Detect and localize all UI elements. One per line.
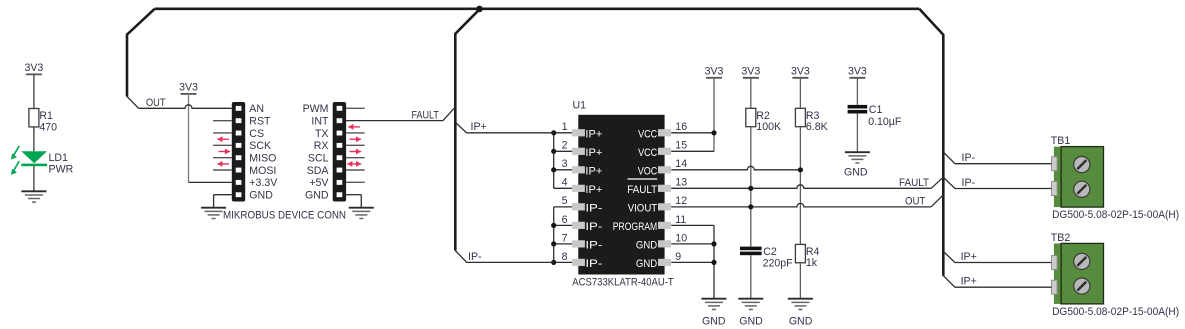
svg-text:GND: GND bbox=[305, 190, 329, 202]
svg-text:IP-: IP- bbox=[585, 239, 602, 251]
svg-text:13: 13 bbox=[675, 177, 687, 189]
svg-text:GND: GND bbox=[636, 239, 657, 251]
svg-text:IP-: IP- bbox=[585, 258, 602, 270]
svg-text:3V3: 3V3 bbox=[791, 66, 810, 78]
svg-text:R1: R1 bbox=[39, 110, 53, 122]
svg-text:3V3: 3V3 bbox=[24, 62, 43, 74]
svg-text:3V3: 3V3 bbox=[705, 66, 724, 78]
svg-text:+3.3V: +3.3V bbox=[249, 177, 278, 189]
svg-text:15: 15 bbox=[675, 140, 687, 152]
svg-text:IP+: IP+ bbox=[585, 147, 602, 159]
svg-text:12: 12 bbox=[675, 195, 687, 207]
svg-text:1: 1 bbox=[562, 121, 568, 133]
svg-text:5: 5 bbox=[562, 195, 568, 207]
svg-text:RX: RX bbox=[314, 140, 329, 152]
svg-text:100K: 100K bbox=[756, 121, 781, 133]
svg-text:IP-: IP- bbox=[585, 221, 602, 233]
svg-text:PWM: PWM bbox=[303, 103, 329, 115]
svg-text:7: 7 bbox=[562, 232, 568, 244]
svg-text:11: 11 bbox=[675, 214, 686, 226]
svg-text:VOC: VOC bbox=[638, 165, 658, 177]
svg-text:GND: GND bbox=[739, 315, 763, 327]
svg-text:3V3: 3V3 bbox=[848, 66, 867, 78]
svg-text:PWR: PWR bbox=[49, 164, 74, 176]
svg-text:TB2: TB2 bbox=[1051, 232, 1071, 244]
svg-text:IP+: IP+ bbox=[585, 165, 602, 177]
svg-text:R3: R3 bbox=[806, 110, 820, 122]
svg-text:14: 14 bbox=[675, 158, 687, 170]
svg-text:IP+: IP+ bbox=[585, 184, 602, 196]
svg-text:R4: R4 bbox=[806, 246, 820, 258]
svg-text:SCK: SCK bbox=[249, 140, 271, 152]
svg-text:DG500-5.08-02P-15-00A(H): DG500-5.08-02P-15-00A(H) bbox=[1052, 209, 1179, 221]
svg-text:C2: C2 bbox=[763, 246, 777, 258]
svg-text:220pF: 220pF bbox=[763, 258, 794, 270]
svg-text:SCL: SCL bbox=[308, 153, 329, 165]
svg-text:IP-: IP- bbox=[468, 251, 482, 263]
svg-text:IP+: IP+ bbox=[961, 276, 977, 288]
svg-text:MOSI: MOSI bbox=[249, 165, 276, 177]
svg-text:TX: TX bbox=[315, 128, 329, 140]
svg-text:GND: GND bbox=[702, 315, 726, 327]
svg-text:CS: CS bbox=[249, 128, 264, 140]
svg-text:R2: R2 bbox=[756, 110, 770, 122]
svg-text:2: 2 bbox=[562, 140, 568, 152]
svg-text:SDA: SDA bbox=[307, 165, 330, 177]
svg-text:IP-: IP- bbox=[962, 177, 976, 189]
svg-text:6: 6 bbox=[562, 214, 568, 226]
svg-text:IP+: IP+ bbox=[961, 251, 977, 263]
svg-text:DG500-5.08-02P-15-00A(H): DG500-5.08-02P-15-00A(H) bbox=[1052, 306, 1179, 318]
svg-text:IP+: IP+ bbox=[471, 121, 487, 133]
svg-text:VCC: VCC bbox=[638, 147, 657, 159]
svg-text:FAULT: FAULT bbox=[627, 184, 657, 196]
svg-text:RST: RST bbox=[249, 116, 271, 128]
svg-text:OUT: OUT bbox=[905, 196, 926, 208]
svg-text:ACS733KLATR-40AU-T: ACS733KLATR-40AU-T bbox=[572, 277, 674, 289]
svg-text:C1: C1 bbox=[869, 104, 883, 116]
svg-text:GND: GND bbox=[249, 190, 273, 202]
svg-text:MIKROBUS DEVICE CONN: MIKROBUS DEVICE CONN bbox=[223, 210, 346, 222]
svg-text:U1: U1 bbox=[573, 100, 587, 112]
svg-text:0.10µF: 0.10µF bbox=[868, 116, 902, 128]
svg-text:GND: GND bbox=[636, 258, 657, 270]
svg-text:3V3: 3V3 bbox=[741, 66, 760, 78]
svg-text:3: 3 bbox=[562, 158, 568, 170]
svg-text:8: 8 bbox=[562, 251, 568, 263]
svg-text:1k: 1k bbox=[806, 257, 818, 269]
svg-text:GND: GND bbox=[789, 315, 813, 327]
svg-text:VIOUT: VIOUT bbox=[628, 202, 658, 214]
svg-text:PROGRAM: PROGRAM bbox=[613, 221, 657, 233]
svg-text:LD1: LD1 bbox=[49, 152, 69, 164]
svg-text:MISO: MISO bbox=[249, 153, 276, 165]
svg-text:470: 470 bbox=[39, 121, 57, 133]
svg-text:TB1: TB1 bbox=[1051, 135, 1071, 147]
svg-text:4: 4 bbox=[562, 177, 568, 189]
svg-text:+5V: +5V bbox=[309, 177, 329, 189]
svg-text:9: 9 bbox=[675, 251, 681, 263]
svg-text:GND: GND bbox=[844, 167, 868, 179]
svg-text:AN: AN bbox=[249, 103, 264, 115]
svg-text:10: 10 bbox=[675, 232, 687, 244]
svg-text:16: 16 bbox=[675, 121, 687, 133]
svg-text:OUT: OUT bbox=[146, 97, 166, 109]
svg-text:IP-: IP- bbox=[585, 202, 602, 214]
svg-text:VCC: VCC bbox=[638, 128, 657, 140]
svg-text:IP+: IP+ bbox=[585, 128, 602, 140]
svg-text:3V3: 3V3 bbox=[179, 82, 198, 94]
svg-text:IP-: IP- bbox=[962, 152, 976, 164]
svg-text:6.8K: 6.8K bbox=[806, 121, 828, 133]
svg-text:INT: INT bbox=[311, 116, 329, 128]
svg-text:FAULT: FAULT bbox=[412, 109, 440, 121]
svg-text:FAULT: FAULT bbox=[899, 177, 929, 189]
